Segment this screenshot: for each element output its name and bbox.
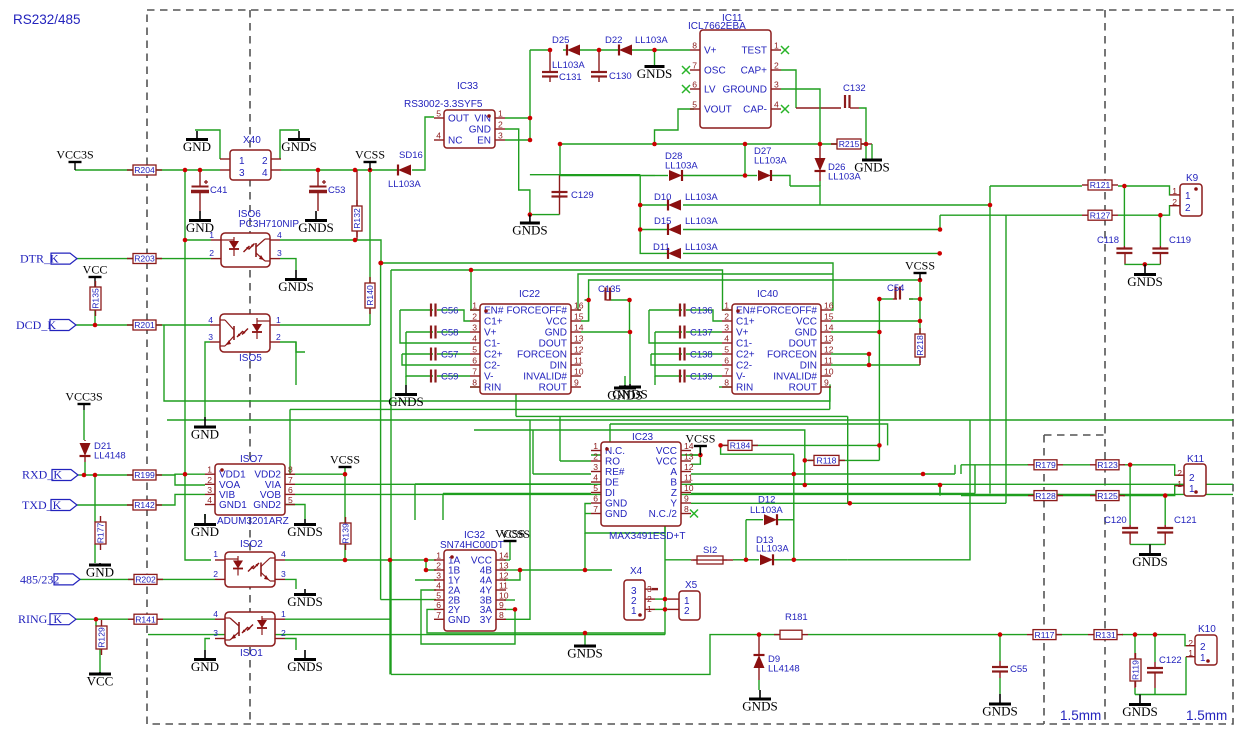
svg-text:R142: R142 xyxy=(134,500,155,510)
svg-text:ROUT: ROUT xyxy=(539,383,567,394)
svg-text:VCC3S: VCC3S xyxy=(65,390,102,404)
svg-text:C137: C137 xyxy=(690,328,713,339)
svg-text:DI: DI xyxy=(605,488,615,499)
svg-text:13: 13 xyxy=(824,334,834,344)
svg-text:R184: R184 xyxy=(730,441,751,451)
svg-text:3: 3 xyxy=(207,485,212,495)
svg-text:C139: C139 xyxy=(690,372,713,383)
svg-text:D22: D22 xyxy=(605,35,622,46)
svg-text:C132: C132 xyxy=(843,83,866,94)
svg-text:11: 11 xyxy=(684,473,693,483)
svg-text:VCSS: VCSS xyxy=(330,453,360,467)
svg-text:9: 9 xyxy=(499,600,504,610)
svg-text:3Y: 3Y xyxy=(480,615,493,626)
svg-text:4: 4 xyxy=(472,334,477,344)
svg-text:GND: GND xyxy=(605,509,627,520)
svg-text:2: 2 xyxy=(209,248,214,258)
svg-text:2: 2 xyxy=(472,312,477,322)
svg-text:12: 12 xyxy=(824,345,834,355)
svg-text:16: 16 xyxy=(574,301,584,311)
svg-text:1: 1 xyxy=(213,549,218,559)
svg-text:R132: R132 xyxy=(352,208,362,229)
svg-text:14: 14 xyxy=(824,323,834,333)
svg-text:2: 2 xyxy=(213,569,218,579)
svg-text:7: 7 xyxy=(472,367,477,377)
svg-text:4: 4 xyxy=(724,334,729,344)
svg-text:3: 3 xyxy=(213,628,218,638)
svg-text:C57: C57 xyxy=(441,350,458,361)
svg-text:8: 8 xyxy=(692,41,697,51)
svg-text:GND: GND xyxy=(448,615,470,626)
svg-text:C1-: C1- xyxy=(736,339,752,350)
svg-text:R215: R215 xyxy=(839,139,860,149)
svg-text:C1+: C1+ xyxy=(736,317,755,328)
svg-text:C136: C136 xyxy=(690,306,713,317)
svg-text:R179: R179 xyxy=(1035,460,1056,470)
svg-text:13: 13 xyxy=(499,561,509,571)
svg-text:R141: R141 xyxy=(135,614,156,624)
svg-text:4: 4 xyxy=(593,473,598,483)
svg-text:1: 1 xyxy=(276,315,281,325)
svg-text:GNDS: GNDS xyxy=(512,223,547,238)
svg-text:GNDS: GNDS xyxy=(1132,554,1167,569)
svg-text:RIN: RIN xyxy=(484,383,501,394)
svg-text:X40: X40 xyxy=(243,135,261,146)
svg-text:R203: R203 xyxy=(134,254,155,264)
svg-text:C135: C135 xyxy=(598,284,621,295)
svg-text:DIN: DIN xyxy=(550,361,567,372)
svg-text:VCSS: VCSS xyxy=(905,259,935,273)
svg-text:3: 3 xyxy=(472,323,477,333)
svg-text:3: 3 xyxy=(277,248,282,258)
svg-text:V+: V+ xyxy=(484,328,497,339)
svg-text:IC33: IC33 xyxy=(457,81,479,92)
svg-text:3: 3 xyxy=(498,131,503,141)
svg-text:2: 2 xyxy=(498,120,503,130)
svg-text:8: 8 xyxy=(684,504,689,514)
svg-text:V+: V+ xyxy=(704,46,717,57)
svg-text:VCSS: VCSS xyxy=(355,148,385,162)
svg-text:8: 8 xyxy=(499,610,504,620)
svg-text:1: 1 xyxy=(239,156,245,167)
svg-text:2: 2 xyxy=(593,452,598,462)
svg-text:2: 2 xyxy=(276,332,281,342)
svg-text:6: 6 xyxy=(593,494,598,504)
svg-text:V-: V- xyxy=(484,372,493,383)
svg-text:INVALID#: INVALID# xyxy=(773,372,817,383)
svg-text:LL103A: LL103A xyxy=(754,156,787,167)
svg-text:GNDS: GNDS xyxy=(281,139,316,154)
svg-text:4: 4 xyxy=(774,100,779,110)
svg-text:GNDS: GNDS xyxy=(287,659,322,674)
svg-text:2: 2 xyxy=(436,561,441,571)
svg-text:GND: GND xyxy=(191,659,219,674)
svg-text:V+: V+ xyxy=(736,328,749,339)
svg-text:GND: GND xyxy=(795,328,817,339)
svg-text:3: 3 xyxy=(436,571,441,581)
svg-text:C55: C55 xyxy=(1010,664,1027,675)
svg-text:R119: R119 xyxy=(1131,660,1141,680)
svg-text:GND2: GND2 xyxy=(253,500,281,511)
svg-text:EN: EN xyxy=(477,136,491,147)
svg-text:C120: C120 xyxy=(1104,515,1127,526)
svg-text:RS3002-3.3SYF5: RS3002-3.3SYF5 xyxy=(404,99,483,110)
svg-text:4: 4 xyxy=(277,230,282,240)
svg-text:R135: R135 xyxy=(91,288,101,309)
svg-text:6: 6 xyxy=(472,356,477,366)
svg-text:12: 12 xyxy=(499,571,509,581)
svg-text:C2+: C2+ xyxy=(484,350,503,361)
svg-text:12: 12 xyxy=(684,462,694,472)
svg-text:INVALID#: INVALID# xyxy=(523,372,567,383)
svg-text:7: 7 xyxy=(436,610,441,620)
svg-text:7: 7 xyxy=(724,367,729,377)
svg-text:LL103A: LL103A xyxy=(388,179,421,190)
svg-text:2: 2 xyxy=(724,312,729,322)
svg-text:2: 2 xyxy=(1185,203,1191,214)
svg-text:IC22: IC22 xyxy=(519,289,541,300)
svg-text:R117: R117 xyxy=(1035,630,1055,640)
svg-text:3: 3 xyxy=(724,323,729,333)
svg-text:3: 3 xyxy=(281,569,286,579)
svg-text:LL103A: LL103A xyxy=(552,60,585,71)
svg-text:14: 14 xyxy=(684,441,694,451)
svg-text:DIN: DIN xyxy=(800,361,817,372)
svg-text:R218: R218 xyxy=(915,335,925,356)
svg-text:C59: C59 xyxy=(441,372,458,383)
svg-text:CAP-: CAP- xyxy=(743,105,767,116)
svg-text:10: 10 xyxy=(684,483,694,493)
svg-text:12: 12 xyxy=(574,345,584,355)
svg-text:ISO2: ISO2 xyxy=(240,539,263,550)
svg-text:GND: GND xyxy=(183,139,211,154)
svg-text:LL103A: LL103A xyxy=(635,35,668,46)
svg-text:2: 2 xyxy=(281,628,286,638)
svg-text:1: 1 xyxy=(724,301,729,311)
svg-text:4: 4 xyxy=(281,549,286,559)
svg-text:R140: R140 xyxy=(365,285,375,306)
svg-text:2: 2 xyxy=(207,475,212,485)
svg-text:GNDS: GNDS xyxy=(567,646,602,661)
svg-text:8: 8 xyxy=(288,465,293,475)
svg-text:9: 9 xyxy=(574,378,579,388)
svg-text:4: 4 xyxy=(207,495,212,505)
svg-text:4: 4 xyxy=(208,315,213,325)
svg-text:LV: LV xyxy=(704,85,716,96)
svg-text:C1-: C1- xyxy=(484,339,500,350)
svg-text:1: 1 xyxy=(1185,191,1191,202)
svg-text:ISO1: ISO1 xyxy=(240,648,263,659)
svg-text:NC: NC xyxy=(448,136,462,147)
svg-text:RO: RO xyxy=(605,457,620,468)
svg-text:5: 5 xyxy=(436,109,441,119)
svg-text:FORCEOFF#: FORCEOFF# xyxy=(756,306,817,317)
svg-text:GND1: GND1 xyxy=(219,500,247,511)
svg-text:RS232/485: RS232/485 xyxy=(13,12,81,27)
svg-text:GNDS: GNDS xyxy=(982,704,1017,719)
svg-text:D11: D11 xyxy=(653,242,670,253)
svg-text:VOUT: VOUT xyxy=(704,105,732,116)
svg-text:GNDS: GNDS xyxy=(287,594,322,609)
svg-text:11: 11 xyxy=(574,356,583,366)
svg-text:Z: Z xyxy=(671,488,677,499)
svg-text:VCC: VCC xyxy=(656,446,677,457)
svg-text:ISO7: ISO7 xyxy=(240,454,263,465)
svg-text:5: 5 xyxy=(692,100,697,110)
svg-text:LL103A: LL103A xyxy=(756,544,789,555)
svg-text:7: 7 xyxy=(288,475,293,485)
svg-text:13: 13 xyxy=(574,334,584,344)
svg-text:GND: GND xyxy=(545,328,567,339)
svg-text:GNDS: GNDS xyxy=(607,388,642,403)
svg-text:14: 14 xyxy=(499,551,509,561)
svg-text:VCC: VCC xyxy=(656,457,677,468)
svg-text:TEST: TEST xyxy=(741,46,767,57)
svg-text:1: 1 xyxy=(1189,484,1195,495)
svg-text:K9: K9 xyxy=(1186,173,1199,184)
svg-text:K10: K10 xyxy=(1198,624,1216,635)
svg-text:1: 1 xyxy=(281,609,286,619)
svg-text:C2+: C2+ xyxy=(736,350,755,361)
svg-text:4: 4 xyxy=(436,131,441,141)
svg-text:GND: GND xyxy=(469,125,491,136)
svg-text:3: 3 xyxy=(593,462,598,472)
svg-text:SI2: SI2 xyxy=(703,545,717,556)
svg-text:GNDS: GNDS xyxy=(287,524,322,539)
svg-text:X5: X5 xyxy=(685,580,698,591)
svg-text:1: 1 xyxy=(593,441,598,451)
svg-text:4: 4 xyxy=(436,581,441,591)
svg-text:B: B xyxy=(670,478,677,489)
svg-text:C122: C122 xyxy=(1159,655,1182,666)
svg-text:SD16: SD16 xyxy=(399,150,423,161)
svg-text:1.5mm: 1.5mm xyxy=(1060,708,1101,723)
svg-text:LL103A: LL103A xyxy=(750,505,783,516)
svg-text:LL103A: LL103A xyxy=(685,216,718,227)
svg-text:MAX3491ESD+T: MAX3491ESD+T xyxy=(609,531,685,542)
svg-text:D10: D10 xyxy=(654,192,671,203)
svg-text:V-: V- xyxy=(736,372,745,383)
svg-text:C53: C53 xyxy=(328,185,345,196)
svg-text:7: 7 xyxy=(593,504,598,514)
svg-text:R129: R129 xyxy=(97,627,107,648)
svg-text:6: 6 xyxy=(288,485,293,495)
svg-text:GNDS: GNDS xyxy=(298,220,333,235)
svg-text:LL103A: LL103A xyxy=(665,161,698,172)
svg-text:GNDS: GNDS xyxy=(1127,274,1162,289)
svg-text:R201: R201 xyxy=(134,320,155,330)
svg-text:GND: GND xyxy=(605,499,627,510)
svg-text:1.5mm: 1.5mm xyxy=(1186,708,1227,723)
svg-text:R128: R128 xyxy=(1035,491,1056,501)
svg-text:DE: DE xyxy=(605,478,619,489)
svg-text:VCSS: VCSS xyxy=(500,527,530,541)
svg-text:6: 6 xyxy=(436,600,441,610)
svg-text:R131: R131 xyxy=(1095,630,1116,640)
svg-text:4: 4 xyxy=(262,168,268,179)
svg-text:C138: C138 xyxy=(690,350,713,361)
svg-text:X4: X4 xyxy=(630,566,643,577)
svg-text:C2-: C2- xyxy=(484,361,500,372)
svg-text:R202: R202 xyxy=(135,575,156,585)
svg-text:3: 3 xyxy=(239,168,245,179)
svg-text:R118: R118 xyxy=(817,456,837,466)
svg-text:VCC: VCC xyxy=(83,263,108,277)
svg-text:11: 11 xyxy=(499,581,508,591)
svg-text:10: 10 xyxy=(574,367,584,377)
svg-text:N.C./2: N.C./2 xyxy=(649,509,678,520)
svg-text:DOUT: DOUT xyxy=(789,339,817,350)
svg-text:VCC: VCC xyxy=(796,317,817,328)
svg-text:2: 2 xyxy=(1188,638,1193,648)
svg-text:R177: R177 xyxy=(96,523,106,544)
svg-text:2: 2 xyxy=(774,61,779,71)
svg-text:LL103A: LL103A xyxy=(685,192,718,203)
svg-text:CAP+: CAP+ xyxy=(741,66,768,77)
svg-text:15: 15 xyxy=(574,312,584,322)
svg-text:2: 2 xyxy=(262,156,268,167)
svg-text:VCC3S: VCC3S xyxy=(56,148,93,162)
svg-text:1: 1 xyxy=(1177,479,1182,489)
svg-text:C41: C41 xyxy=(210,185,227,196)
svg-text:1: 1 xyxy=(472,301,477,311)
svg-text:Y: Y xyxy=(670,499,677,510)
svg-text:C119: C119 xyxy=(1169,235,1191,246)
svg-text:C118: C118 xyxy=(1097,235,1119,246)
svg-text:RIN: RIN xyxy=(736,383,753,394)
svg-text:3: 3 xyxy=(208,332,213,342)
svg-text:6: 6 xyxy=(692,80,697,90)
svg-text:GND: GND xyxy=(86,565,114,580)
svg-text:1: 1 xyxy=(774,41,779,51)
svg-text:C121: C121 xyxy=(1174,515,1197,526)
svg-text:FORCEON: FORCEON xyxy=(767,350,817,361)
svg-text:R127: R127 xyxy=(1090,210,1111,220)
svg-text:6: 6 xyxy=(724,356,729,366)
svg-text:OSC: OSC xyxy=(704,66,726,77)
svg-text:A: A xyxy=(670,467,677,478)
svg-text:1: 1 xyxy=(1200,653,1206,664)
svg-text:C129: C129 xyxy=(571,190,594,201)
svg-text:4: 4 xyxy=(213,609,218,619)
svg-text:9: 9 xyxy=(824,378,829,388)
svg-text:5: 5 xyxy=(472,345,477,355)
svg-text:1: 1 xyxy=(209,230,214,240)
svg-text:C54: C54 xyxy=(887,283,904,294)
svg-text:R123: R123 xyxy=(1097,460,1118,470)
svg-text:C130: C130 xyxy=(609,71,632,82)
svg-text:1: 1 xyxy=(436,551,441,561)
svg-text:5: 5 xyxy=(593,483,598,493)
svg-text:R139: R139 xyxy=(341,523,351,544)
svg-text:2: 2 xyxy=(1200,642,1206,653)
svg-text:LL103A: LL103A xyxy=(685,242,718,253)
svg-text:GND: GND xyxy=(191,524,219,539)
svg-text:VCC: VCC xyxy=(546,317,567,328)
svg-text:D15: D15 xyxy=(654,216,671,227)
svg-text:IC23: IC23 xyxy=(632,432,654,443)
svg-text:1: 1 xyxy=(207,465,212,475)
svg-text:SN74HC00DT: SN74HC00DT xyxy=(440,540,504,551)
svg-text:R204: R204 xyxy=(134,165,155,175)
svg-text:13: 13 xyxy=(684,452,694,462)
svg-text:5: 5 xyxy=(724,345,729,355)
svg-text:C58: C58 xyxy=(441,328,458,339)
svg-text:C56: C56 xyxy=(441,306,458,317)
svg-text:GNDS: GNDS xyxy=(1122,704,1157,719)
svg-text:IC40: IC40 xyxy=(757,289,779,300)
svg-text:LL103A: LL103A xyxy=(828,172,861,183)
svg-text:D25: D25 xyxy=(552,35,569,46)
svg-text:ICL7662EBA: ICL7662EBA xyxy=(688,21,746,32)
svg-text:GNDS: GNDS xyxy=(278,279,313,294)
svg-text:ROUT: ROUT xyxy=(789,383,817,394)
svg-text:GNDS: GNDS xyxy=(388,394,423,409)
svg-text:RE#: RE# xyxy=(605,467,625,478)
svg-text:8: 8 xyxy=(472,378,477,388)
svg-text:11: 11 xyxy=(824,356,833,366)
svg-text:ADUM3201ARZ: ADUM3201ARZ xyxy=(217,516,289,527)
svg-text:R121: R121 xyxy=(1090,180,1111,190)
svg-text:FORCEOFF#: FORCEOFF# xyxy=(506,306,567,317)
svg-text:DOUT: DOUT xyxy=(539,339,567,350)
svg-text:GROUND: GROUND xyxy=(723,85,767,96)
svg-text:2: 2 xyxy=(684,606,690,617)
svg-text:2: 2 xyxy=(1177,468,1182,478)
svg-text:5: 5 xyxy=(288,495,293,505)
svg-text:GNDS: GNDS xyxy=(742,699,777,714)
svg-text:OUT: OUT xyxy=(448,114,469,125)
svg-text:R125: R125 xyxy=(1097,491,1118,501)
svg-text:C1+: C1+ xyxy=(484,317,503,328)
svg-text:1: 1 xyxy=(498,109,503,119)
svg-text:C2-: C2- xyxy=(736,361,752,372)
svg-text:C131: C131 xyxy=(559,72,582,83)
svg-text:14: 14 xyxy=(574,323,584,333)
svg-text:FORCEON: FORCEON xyxy=(517,350,567,361)
svg-text:D12: D12 xyxy=(758,495,775,506)
svg-text:R199: R199 xyxy=(134,470,155,480)
svg-text:10: 10 xyxy=(824,367,834,377)
svg-text:2: 2 xyxy=(1189,473,1195,484)
svg-text:3: 3 xyxy=(774,80,779,90)
svg-text:VCC: VCC xyxy=(87,674,114,689)
svg-text:K11: K11 xyxy=(1187,454,1204,465)
svg-text:GND: GND xyxy=(191,427,219,442)
svg-text:7: 7 xyxy=(692,61,697,71)
svg-text:R181: R181 xyxy=(785,612,808,623)
svg-text:LL4148: LL4148 xyxy=(768,664,800,675)
svg-text:PC3H710NIP: PC3H710NIP xyxy=(239,219,299,230)
svg-text:LL4148: LL4148 xyxy=(94,451,126,462)
svg-text:1: 1 xyxy=(631,606,637,617)
svg-text:8: 8 xyxy=(724,378,729,388)
svg-text:9: 9 xyxy=(684,494,689,504)
svg-text:15: 15 xyxy=(824,312,834,322)
svg-text:ISO5: ISO5 xyxy=(239,353,262,364)
svg-text:GNDS: GNDS xyxy=(637,66,672,81)
svg-text:16: 16 xyxy=(824,301,834,311)
